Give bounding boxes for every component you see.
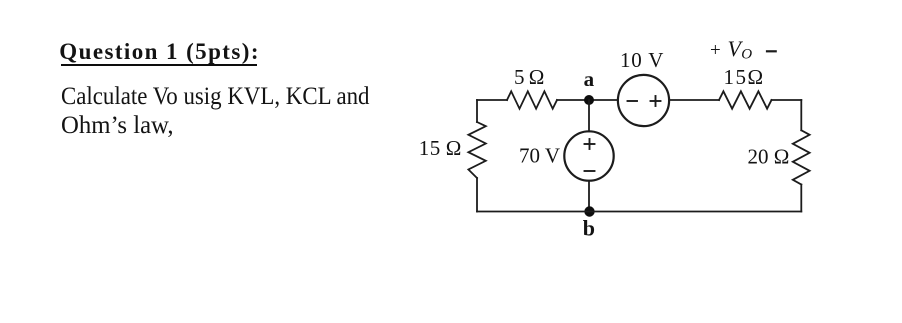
svg-text:70 V: 70 V <box>519 144 560 168</box>
wire: bottom horizontal <box>477 211 801 213</box>
resistor 5Ω (top left, horizontal zigzag) <box>507 91 557 108</box>
resistor 20Ω (right, vertical zigzag) <box>793 130 810 184</box>
svg-text:5 Ω: 5 Ω <box>514 65 544 89</box>
wire: right vertical lower <box>800 185 802 212</box>
svg-text:+: + <box>710 40 721 61</box>
wire: top between 5Ω and node a <box>557 99 618 101</box>
svg-text:b: b <box>583 216 595 241</box>
node b (junction dot) <box>584 206 594 216</box>
plus sign inside 10V source <box>651 100 661 102</box>
svg-text:O: O <box>741 47 752 63</box>
node a (junction dot) <box>584 95 594 105</box>
paragraph line 2 "Ohm's law," <box>61 111 174 141</box>
minus sign inside 70V source <box>585 170 595 172</box>
svg-text:20 Ω: 20 Ω <box>748 145 790 169</box>
svg-text:a: a <box>584 67 595 91</box>
wire: middle from node a down to 70V source <box>588 100 590 131</box>
voltage source 10 V (circle) <box>618 75 669 126</box>
heading underline <box>61 64 258 66</box>
wire: right vertical upper <box>800 100 802 130</box>
wire: top-left horizontal segment <box>477 99 507 101</box>
plus sign inside 70V source <box>585 143 595 145</box>
wire: left vertical lower <box>476 178 478 212</box>
wire: top-right horizontal segment <box>772 99 802 101</box>
heading "Question 1 (5pts):" <box>59 39 260 65</box>
resistor 15Ω (left, vertical zigzag) <box>468 122 485 178</box>
wire: middle from 70V source down to node b <box>588 181 590 212</box>
wire: left vertical upper <box>476 100 478 122</box>
minus sign inside 10V source <box>628 100 638 102</box>
svg-text:10 V: 10 V <box>620 48 664 72</box>
svg-text:15Ω: 15Ω <box>724 65 765 89</box>
wire: top between 10V source and 15Ω <box>669 99 719 101</box>
svg-text:15 Ω: 15 Ω <box>419 136 462 160</box>
paragraph line 1 "Calculate Vo usig KVL, KCL and" <box>61 82 369 112</box>
voltage source 70 V (circle) <box>564 131 613 180</box>
resistor 15Ω (top right, horizontal zigzag) <box>719 91 772 108</box>
